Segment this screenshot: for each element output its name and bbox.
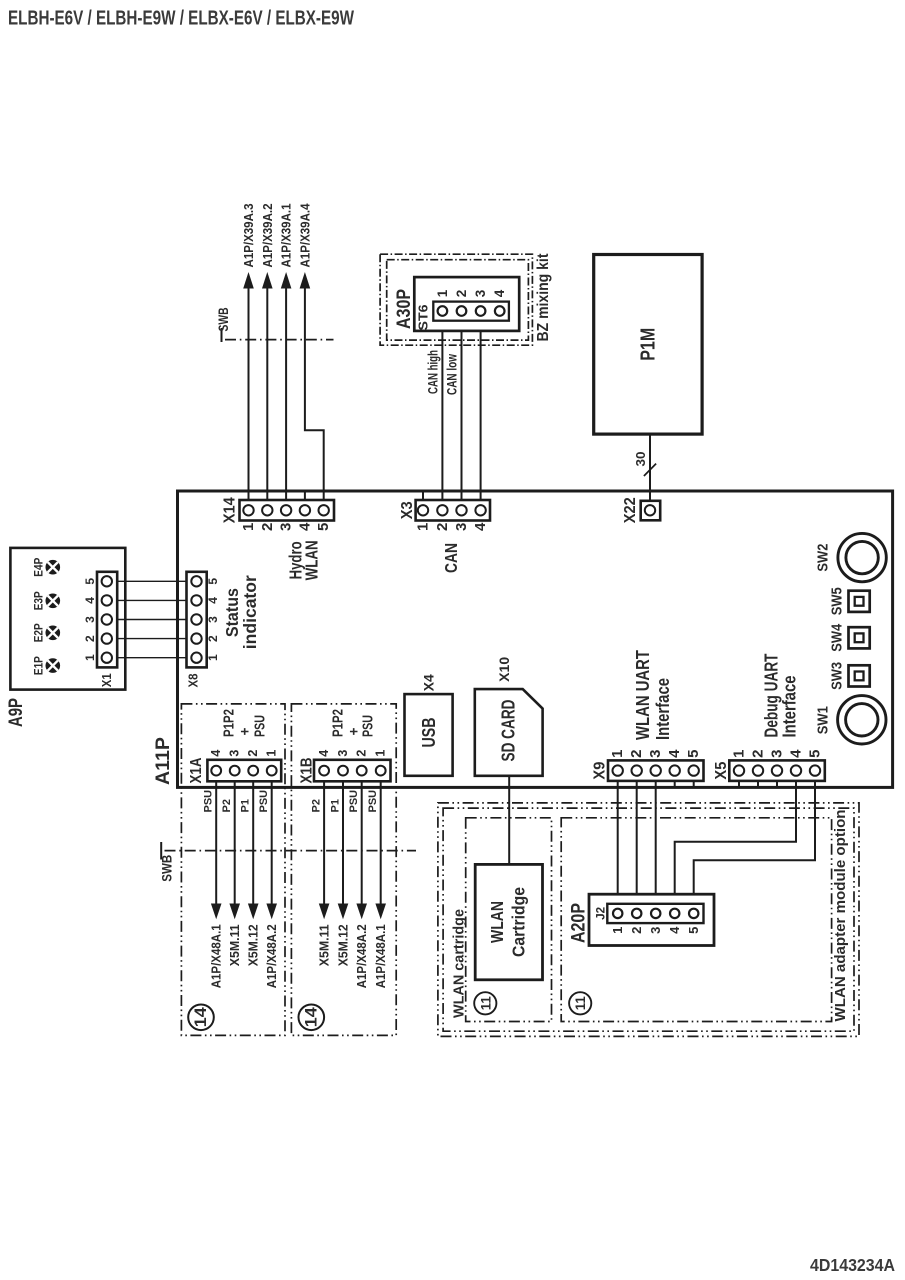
svg-text:SW3: SW3 — [829, 662, 845, 690]
svg-text:X1A: X1A — [188, 757, 205, 783]
svg-text:4: 4 — [788, 749, 805, 758]
svg-text:2: 2 — [259, 523, 276, 531]
svg-text:CAN: CAN — [441, 543, 461, 573]
svg-text:A9P: A9P — [5, 698, 27, 727]
svg-text:SW2: SW2 — [816, 544, 832, 572]
svg-text:Cartridge: Cartridge — [509, 887, 529, 957]
svg-text:E1P: E1P — [34, 656, 46, 675]
svg-text:X9: X9 — [592, 762, 609, 780]
svg-text:CAN high: CAN high — [426, 350, 441, 394]
svg-text:A1P/X48A.2: A1P/X48A.2 — [264, 924, 279, 988]
svg-text:3: 3 — [453, 523, 470, 531]
svg-text:PSU: PSU — [258, 790, 270, 813]
svg-text:2: 2 — [750, 750, 767, 758]
svg-text:ELBH-E6V / ELBH-E9W / ELBX-E6V: ELBH-E6V / ELBH-E9W / ELBX-E6V / ELBX-E9… — [8, 7, 354, 29]
svg-text:4: 4 — [492, 289, 507, 297]
svg-text:3: 3 — [769, 750, 786, 758]
svg-text:2: 2 — [434, 523, 451, 531]
svg-text:A20P: A20P — [568, 903, 590, 943]
svg-text:1: 1 — [240, 523, 257, 531]
svg-text:SW4: SW4 — [829, 624, 845, 652]
svg-text:3: 3 — [206, 616, 220, 623]
svg-text:SWB: SWB — [215, 308, 231, 332]
svg-text:SWB: SWB — [159, 855, 175, 882]
svg-text:WLAN: WLAN — [302, 540, 322, 580]
svg-text:X1: X1 — [100, 673, 114, 687]
svg-text:3: 3 — [83, 616, 97, 623]
svg-text:ST6: ST6 — [417, 304, 431, 330]
svg-text:PSU: PSU — [360, 715, 377, 737]
svg-text:USB: USB — [419, 718, 439, 748]
svg-text:2: 2 — [355, 750, 369, 757]
svg-text:4: 4 — [206, 597, 220, 604]
svg-text:1: 1 — [609, 750, 626, 758]
svg-text:1: 1 — [83, 654, 97, 661]
svg-text:SW1: SW1 — [816, 706, 832, 734]
svg-text:14: 14 — [302, 1006, 320, 1027]
svg-text:A1P/X48A.1: A1P/X48A.1 — [373, 924, 388, 988]
svg-text:BZ mixing kit: BZ mixing kit — [535, 253, 552, 342]
svg-text:A30P: A30P — [393, 289, 415, 329]
svg-text:P2: P2 — [311, 799, 323, 812]
svg-text:5: 5 — [686, 927, 701, 934]
svg-text:4: 4 — [667, 926, 682, 934]
svg-text:P1P2: P1P2 — [221, 709, 238, 737]
svg-text:WLAN: WLAN — [487, 901, 507, 943]
svg-text:CAN low: CAN low — [444, 354, 459, 395]
svg-text:4D143234A: 4D143234A — [810, 1255, 895, 1275]
svg-text:2: 2 — [628, 750, 645, 758]
svg-text:14: 14 — [192, 1006, 210, 1027]
svg-text:X3: X3 — [399, 501, 416, 519]
svg-text:X10: X10 — [496, 657, 512, 682]
svg-text:11: 11 — [572, 996, 588, 1010]
svg-text:2: 2 — [246, 750, 260, 757]
svg-text:P1M: P1M — [638, 328, 660, 361]
svg-text:X5: X5 — [713, 762, 730, 780]
svg-text:Status: Status — [222, 588, 242, 637]
svg-text:5: 5 — [685, 750, 702, 758]
svg-text:1: 1 — [435, 289, 450, 297]
svg-text:X22: X22 — [622, 497, 639, 523]
svg-text:indicator: indicator — [240, 575, 260, 649]
svg-text:J2: J2 — [594, 907, 608, 920]
svg-text:Interface: Interface — [652, 678, 673, 740]
svg-text:A1P/X39A.3: A1P/X39A.3 — [241, 204, 256, 268]
svg-text:E4P: E4P — [34, 557, 46, 576]
svg-text:5: 5 — [315, 523, 332, 531]
svg-text:1: 1 — [206, 654, 220, 661]
svg-text:WLAN adapter module option: WLAN adapter module option — [832, 810, 849, 1022]
svg-text:X5M.11: X5M.11 — [317, 924, 332, 966]
svg-text:A1P/X39A.2: A1P/X39A.2 — [260, 204, 275, 268]
svg-text:3: 3 — [647, 750, 664, 758]
svg-text:4: 4 — [472, 522, 489, 531]
svg-text:2: 2 — [454, 290, 469, 298]
svg-text:X14: X14 — [222, 497, 239, 523]
svg-text:3: 3 — [336, 750, 350, 757]
svg-text:1: 1 — [610, 927, 625, 934]
svg-text:2: 2 — [83, 635, 97, 642]
svg-text:A1P/X48A.1: A1P/X48A.1 — [209, 924, 224, 988]
svg-text:PSU: PSU — [203, 790, 215, 813]
svg-text:11: 11 — [477, 996, 493, 1010]
svg-text:1: 1 — [415, 523, 432, 531]
svg-text:1: 1 — [265, 750, 279, 757]
svg-text:2: 2 — [206, 635, 220, 642]
svg-text:X8: X8 — [186, 673, 200, 687]
svg-text:P1P2: P1P2 — [329, 709, 346, 737]
svg-text:5: 5 — [83, 578, 97, 585]
svg-text:PSU: PSU — [367, 790, 379, 813]
svg-text:WLAN cartridge: WLAN cartridge — [451, 909, 468, 1018]
svg-text:A1P/X48A.2: A1P/X48A.2 — [354, 924, 369, 988]
svg-text:3: 3 — [278, 523, 295, 531]
svg-text:4: 4 — [317, 750, 331, 757]
svg-text:P1: P1 — [330, 799, 342, 812]
svg-text:1: 1 — [731, 750, 748, 758]
svg-text:PSU: PSU — [348, 790, 360, 813]
svg-text:A1P/X39A.4: A1P/X39A.4 — [297, 203, 312, 268]
svg-text:X1B: X1B — [299, 758, 316, 784]
svg-text:A1P/X39A.1: A1P/X39A.1 — [279, 204, 294, 268]
svg-text:3: 3 — [648, 927, 663, 934]
svg-text:3: 3 — [473, 289, 488, 297]
svg-text:4: 4 — [666, 749, 683, 758]
svg-text:X5M.12: X5M.12 — [246, 924, 261, 966]
svg-text:E2P: E2P — [34, 623, 46, 642]
svg-text:2: 2 — [629, 927, 644, 934]
svg-text:P2: P2 — [221, 799, 233, 812]
svg-text:4: 4 — [83, 597, 97, 604]
svg-text:4: 4 — [209, 750, 223, 757]
svg-text:5: 5 — [206, 578, 220, 585]
svg-text:1: 1 — [374, 750, 388, 757]
svg-text:SW5: SW5 — [829, 587, 845, 615]
svg-text:4: 4 — [296, 522, 313, 531]
svg-text:PSU: PSU — [252, 715, 269, 737]
svg-text:30: 30 — [633, 452, 648, 467]
svg-text:3: 3 — [228, 750, 242, 757]
svg-text:X4: X4 — [420, 674, 436, 691]
svg-text:X5M.11: X5M.11 — [227, 924, 242, 966]
svg-text:X5M.12: X5M.12 — [336, 924, 351, 966]
svg-text:E3P: E3P — [34, 591, 46, 610]
svg-text:SD CARD: SD CARD — [499, 700, 519, 762]
svg-text:5: 5 — [807, 750, 824, 758]
svg-text:Interface: Interface — [779, 676, 800, 738]
svg-text:A11P: A11P — [152, 737, 174, 785]
svg-text:P1: P1 — [240, 799, 252, 812]
svg-text:WLAN UART: WLAN UART — [632, 649, 653, 740]
